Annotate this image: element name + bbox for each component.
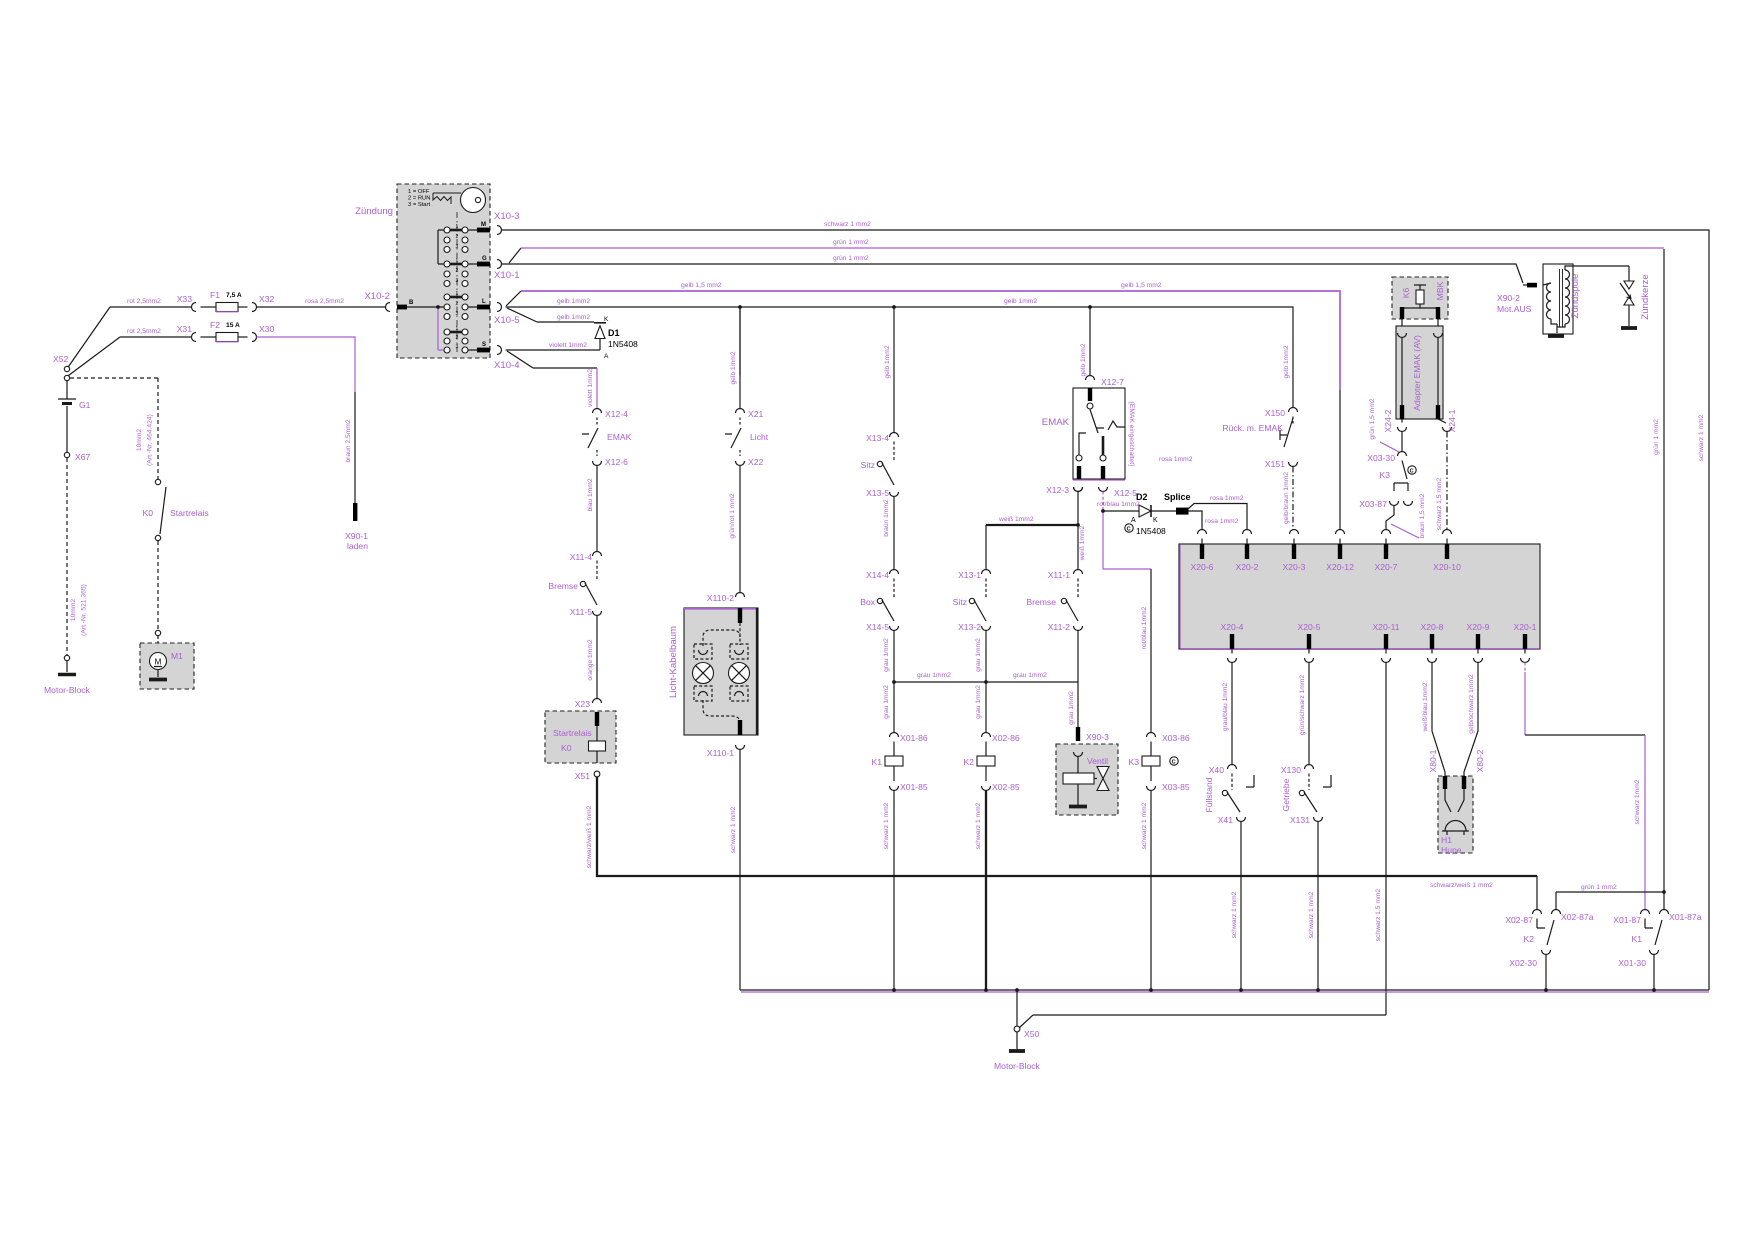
svg-text:grau 1mm2: grau 1mm2 <box>883 685 890 719</box>
svg-text:3 = Start: 3 = Start <box>408 202 430 208</box>
svg-text:X02-87a: X02-87a <box>1561 912 1594 922</box>
svg-text:3: 3 <box>456 244 459 250</box>
svg-text:schwarz 1 mm2: schwarz 1 mm2 <box>883 802 890 849</box>
svg-text:grau 1mm2: grau 1mm2 <box>883 638 890 672</box>
svg-text:X20-12: X20-12 <box>1326 562 1354 572</box>
svg-text:L: L <box>482 299 486 305</box>
svg-text:X67: X67 <box>75 452 91 462</box>
svg-text:10mm2: 10mm2 <box>70 599 77 622</box>
svg-text:braun 1mm2: braun 1mm2 <box>883 499 890 537</box>
svg-text:gelb 1mm2: gelb 1mm2 <box>730 351 737 384</box>
svg-text:X12-3: X12-3 <box>1046 485 1069 495</box>
svg-text:X90-3: X90-3 <box>1086 732 1109 742</box>
svg-text:1N5408: 1N5408 <box>1136 526 1166 536</box>
svg-text:schwarz/weiß 1 mm2: schwarz/weiß 1 mm2 <box>1430 882 1493 889</box>
svg-text:G: G <box>482 256 487 262</box>
svg-text:Bremse: Bremse <box>548 581 578 591</box>
svg-text:C: C <box>1172 760 1176 766</box>
svg-text:X12-7: X12-7 <box>1101 377 1124 387</box>
svg-text:schwarz 1 mm2: schwarz 1 mm2 <box>975 802 982 849</box>
svg-text:schwarz/weiß 1 mm2: schwarz/weiß 1 mm2 <box>586 805 593 868</box>
svg-text:rot 2,5mm2: rot 2,5mm2 <box>127 298 161 305</box>
svg-text:C: C <box>1127 527 1131 533</box>
svg-text:schwarz 1mm2: schwarz 1mm2 <box>1634 779 1641 824</box>
svg-text:M: M <box>481 222 486 228</box>
svg-text:gelb 1mm2: gelb 1mm2 <box>1080 343 1087 376</box>
svg-text:A: A <box>1131 517 1136 524</box>
svg-text:Zündspule: Zündspule <box>1570 274 1581 319</box>
svg-text:braun 2,5mm2: braun 2,5mm2 <box>345 419 352 462</box>
svg-text:X12-6: X12-6 <box>605 457 628 467</box>
svg-text:X11-2: X11-2 <box>1048 622 1071 632</box>
svg-text:X20-1: X20-1 <box>1514 622 1537 632</box>
svg-text:rot 2,5mm2: rot 2,5mm2 <box>127 328 161 335</box>
svg-text:X40: X40 <box>1209 765 1225 775</box>
svg-text:K0: K0 <box>561 743 572 753</box>
svg-text:[EMAK eingeschaltet]: [EMAK eingeschaltet] <box>1128 402 1135 466</box>
svg-text:A: A <box>604 353 609 360</box>
svg-text:X01-86: X01-86 <box>900 733 928 743</box>
svg-text:15 A: 15 A <box>226 322 240 329</box>
svg-text:F1: F1 <box>210 290 220 300</box>
svg-text:X80-2: X80-2 <box>1475 749 1485 772</box>
svg-text:X12-4: X12-4 <box>605 409 628 419</box>
svg-text:X90-2: X90-2 <box>1497 293 1520 303</box>
svg-text:(Art.-Nr. 521.365): (Art.-Nr. 521.365) <box>81 584 88 636</box>
svg-text:grün 1 mm2: grün 1 mm2 <box>833 239 869 246</box>
svg-text:X11-1: X11-1 <box>1048 570 1071 580</box>
svg-text:Splice: Splice <box>1164 492 1191 502</box>
svg-text:X02-85: X02-85 <box>992 782 1020 792</box>
svg-text:weiß 1mm2: weiß 1mm2 <box>1079 525 1086 561</box>
svg-text:K3: K3 <box>1128 757 1139 767</box>
svg-text:X10-4: X10-4 <box>494 360 520 371</box>
svg-text:gelb 1mm2: gelb 1mm2 <box>1004 298 1037 305</box>
svg-text:B: B <box>409 300 414 306</box>
svg-text:2: 2 <box>456 335 459 341</box>
svg-text:rosa 2,5mm2: rosa 2,5mm2 <box>305 298 344 305</box>
svg-text:X20-3: X20-3 <box>1283 562 1306 572</box>
svg-text:S: S <box>482 342 486 348</box>
svg-text:X20-10: X20-10 <box>1433 562 1461 572</box>
svg-text:X21: X21 <box>748 409 764 419</box>
svg-text:X131: X131 <box>1290 815 1310 825</box>
svg-text:Hupe: Hupe <box>1441 845 1462 855</box>
svg-text:3: 3 <box>456 344 459 350</box>
svg-text:X20-9: X20-9 <box>1467 622 1490 632</box>
svg-text:X24-2: X24-2 <box>1383 409 1393 432</box>
svg-text:X52: X52 <box>53 354 69 364</box>
svg-text:Getriebe: Getriebe <box>1281 778 1291 811</box>
svg-text:X24-1: X24-1 <box>1447 409 1457 432</box>
svg-text:M: M <box>155 658 162 667</box>
svg-text:F2: F2 <box>210 320 220 330</box>
svg-text:X30: X30 <box>259 324 275 334</box>
svg-text:X33: X33 <box>177 294 193 304</box>
svg-text:schwarz 1,5 mm2: schwarz 1,5 mm2 <box>1436 478 1443 531</box>
svg-text:schwarz 1,5 mm2: schwarz 1,5 mm2 <box>1375 889 1382 942</box>
svg-text:violett 1mm2: violett 1mm2 <box>587 369 594 407</box>
svg-text:X20-7: X20-7 <box>1375 562 1398 572</box>
svg-text:schwarz 1 mm2: schwarz 1 mm2 <box>730 806 737 853</box>
svg-text:Bremse: Bremse <box>1026 597 1056 607</box>
svg-text:X20-6: X20-6 <box>1191 562 1214 572</box>
svg-text:K1: K1 <box>1631 934 1642 944</box>
svg-text:EMAK: EMAK <box>1042 417 1070 428</box>
svg-text:laden: laden <box>347 541 368 551</box>
svg-text:2: 2 <box>456 268 459 274</box>
svg-text:gelb/braun 1mm2: gelb/braun 1mm2 <box>1283 472 1290 524</box>
svg-text:grau 1mm2: grau 1mm2 <box>975 685 982 719</box>
svg-text:X20-2: X20-2 <box>1236 562 1259 572</box>
svg-text:1: 1 <box>456 258 459 264</box>
svg-text:X03-85: X03-85 <box>1162 782 1190 792</box>
svg-text:X80-1: X80-1 <box>1428 749 1438 772</box>
svg-text:Füllstand: Füllstand <box>1204 777 1214 812</box>
svg-text:schwarz 1 mm2: schwarz 1 mm2 <box>1698 414 1705 461</box>
svg-text:grün 1 mm2: grün 1 mm2 <box>1653 419 1660 455</box>
svg-text:10mm2: 10mm2 <box>136 429 143 452</box>
svg-text:X110-1: X110-1 <box>707 748 734 758</box>
svg-text:X03-30: X03-30 <box>1367 453 1395 463</box>
svg-text:gelb 1,5 mm2: gelb 1,5 mm2 <box>681 282 722 289</box>
svg-text:MBK: MBK <box>1435 281 1445 300</box>
svg-text:X20-4: X20-4 <box>1221 622 1244 632</box>
svg-text:X20-5: X20-5 <box>1298 622 1321 632</box>
svg-text:Motor-Block: Motor-Block <box>994 1061 1041 1071</box>
svg-text:grün 1,5 mm2: grün 1,5 mm2 <box>1369 398 1376 440</box>
svg-text:X31: X31 <box>177 324 193 334</box>
svg-text:grün/rot 1 mm2: grün/rot 1 mm2 <box>729 493 736 539</box>
svg-text:weiß 1mm2: weiß 1mm2 <box>998 516 1034 523</box>
svg-text:X14-5: X14-5 <box>866 622 889 632</box>
svg-text:grau 1mm2: grau 1mm2 <box>917 672 951 679</box>
svg-text:X51: X51 <box>575 771 591 781</box>
svg-text:D1: D1 <box>608 328 620 338</box>
svg-text:gelb 1mm2: gelb 1mm2 <box>1283 345 1290 378</box>
svg-text:braun 1,5 mm2: braun 1,5 mm2 <box>1419 493 1426 538</box>
svg-text:X11-5: X11-5 <box>570 607 593 617</box>
svg-text:X12-5: X12-5 <box>1114 488 1137 498</box>
svg-text:EMAK: EMAK <box>607 432 632 442</box>
svg-text:X13-4: X13-4 <box>866 433 889 443</box>
svg-text:gelb 1mm2: gelb 1mm2 <box>557 314 590 321</box>
svg-text:X14-4: X14-4 <box>866 570 889 580</box>
svg-text:Ventil: Ventil <box>1087 756 1108 766</box>
svg-text:Licht-Kabelbaum: Licht-Kabelbaum <box>668 626 679 698</box>
svg-text:schwarz 1 mm2: schwarz 1 mm2 <box>1141 802 1148 849</box>
svg-text:Box: Box <box>860 597 876 607</box>
svg-text:weiß/blau 1mm2: weiß/blau 1mm2 <box>1422 682 1429 732</box>
svg-text:grün 1 mm2: grün 1 mm2 <box>833 255 869 262</box>
svg-text:X13-1: X13-1 <box>958 570 981 580</box>
svg-text:3: 3 <box>456 311 459 317</box>
svg-text:rot/blau 1mm2: rot/blau 1mm2 <box>1141 606 1148 649</box>
svg-text:1: 1 <box>456 291 459 297</box>
svg-text:X03-87: X03-87 <box>1359 499 1387 509</box>
svg-text:X41: X41 <box>1218 815 1234 825</box>
svg-text:X13-2: X13-2 <box>958 622 981 632</box>
svg-text:G1: G1 <box>79 400 91 410</box>
svg-text:1N5408: 1N5408 <box>608 339 638 349</box>
svg-text:3: 3 <box>456 278 459 284</box>
svg-text:2 = RUN: 2 = RUN <box>408 196 430 202</box>
svg-text:K3: K3 <box>1379 470 1390 480</box>
svg-text:X03-86: X03-86 <box>1162 733 1190 743</box>
svg-text:schwarz 1 mm2: schwarz 1 mm2 <box>1231 891 1238 938</box>
svg-text:K: K <box>604 316 609 323</box>
svg-text:rosa 1mm2: rosa 1mm2 <box>1210 495 1244 502</box>
svg-text:X50: X50 <box>1024 1029 1040 1039</box>
svg-text:gelb 1mm2: gelb 1mm2 <box>557 298 590 305</box>
svg-text:X90-1: X90-1 <box>345 531 368 541</box>
svg-text:K1: K1 <box>871 757 882 767</box>
svg-text:Zündung: Zündung <box>355 206 393 217</box>
svg-text:Rück. m. EMAK: Rück. m. EMAK <box>1222 423 1283 433</box>
svg-text:Adapter EMAK (AV): Adapter EMAK (AV) <box>1412 335 1422 411</box>
svg-text:X10-1: X10-1 <box>494 270 520 281</box>
svg-text:grau 1mm2: grau 1mm2 <box>975 638 982 672</box>
svg-text:orange 1mm2: orange 1mm2 <box>587 639 594 681</box>
svg-text:C: C <box>1410 469 1414 475</box>
svg-text:X150: X150 <box>1265 408 1285 418</box>
svg-text:X23: X23 <box>575 699 591 709</box>
svg-text:grau 1mm2: grau 1mm2 <box>1068 691 1075 725</box>
svg-text:Startrelais: Startrelais <box>170 508 209 518</box>
svg-text:X10-3: X10-3 <box>494 211 520 222</box>
svg-text:Licht: Licht <box>750 432 769 442</box>
svg-text:X01-30: X01-30 <box>1618 958 1646 968</box>
svg-text:schwarz 1 mm2: schwarz 1 mm2 <box>1308 891 1315 938</box>
svg-text:gelb/schwarz 1mm2: gelb/schwarz 1mm2 <box>1468 674 1475 734</box>
svg-text:K2: K2 <box>963 757 974 767</box>
svg-text:X01-87a: X01-87a <box>1669 912 1702 922</box>
svg-text:M1: M1 <box>171 651 183 661</box>
svg-text:(Art.-Nr. 464.424): (Art.-Nr. 464.424) <box>147 414 154 466</box>
svg-text:violett 1mm2: violett 1mm2 <box>549 342 587 349</box>
svg-text:X110-2: X110-2 <box>707 593 734 603</box>
svg-text:1: 1 <box>456 224 459 230</box>
svg-text:K0: K0 <box>142 508 153 518</box>
svg-text:grau/blau 1mm2: grau/blau 1mm2 <box>1222 683 1229 732</box>
svg-text:grün/schwarz 1mm2: grün/schwarz 1mm2 <box>1299 675 1306 735</box>
svg-text:K6: K6 <box>1401 288 1411 299</box>
svg-text:X32: X32 <box>259 294 275 304</box>
svg-text:rosa 1mm2: rosa 1mm2 <box>1159 456 1193 463</box>
svg-text:X02-87: X02-87 <box>1505 915 1533 925</box>
svg-text:rosa 1mm2: rosa 1mm2 <box>1205 518 1239 525</box>
svg-text:Startrelais: Startrelais <box>553 728 592 738</box>
svg-text:X13-5: X13-5 <box>866 488 889 498</box>
svg-text:K2: K2 <box>1523 934 1534 944</box>
svg-text:X02-86: X02-86 <box>992 733 1020 743</box>
svg-text:Sitz: Sitz <box>953 597 967 607</box>
svg-text:gelb 1mm2: gelb 1mm2 <box>884 345 891 378</box>
svg-text:Motor-Block: Motor-Block <box>44 685 91 695</box>
svg-text:X10-2: X10-2 <box>364 291 390 302</box>
svg-text:X01-85: X01-85 <box>900 782 928 792</box>
svg-text:grün 1 mm2: grün 1 mm2 <box>1581 884 1617 891</box>
svg-text:X10-5: X10-5 <box>494 315 520 326</box>
svg-text:grau 1mm2: grau 1mm2 <box>1013 672 1047 679</box>
svg-text:Zündkerze: Zündkerze <box>1640 274 1651 319</box>
svg-text:gelb 1,5 mm2: gelb 1,5 mm2 <box>1121 282 1162 289</box>
svg-text:H1: H1 <box>1441 835 1452 845</box>
svg-text:Mot.AUS: Mot.AUS <box>1497 304 1532 314</box>
svg-text:X20-8: X20-8 <box>1421 622 1444 632</box>
svg-text:X20-11: X20-11 <box>1372 622 1399 632</box>
svg-text:blau 1mm2: blau 1mm2 <box>587 478 594 511</box>
svg-text:1: 1 <box>456 326 459 332</box>
svg-text:X01-87: X01-87 <box>1613 915 1641 925</box>
svg-text:X130: X130 <box>1281 765 1301 775</box>
svg-text:2: 2 <box>456 234 459 240</box>
svg-text:7,5 A: 7,5 A <box>226 292 242 299</box>
svg-text:2: 2 <box>456 301 459 307</box>
svg-text:Sitz: Sitz <box>861 460 875 470</box>
svg-text:X11-4: X11-4 <box>570 552 593 562</box>
svg-text:rot/blau 1mm2: rot/blau 1mm2 <box>1097 501 1140 508</box>
svg-text:X151: X151 <box>1265 459 1285 469</box>
svg-text:X22: X22 <box>748 457 764 467</box>
svg-text:K: K <box>1153 517 1158 524</box>
svg-text:X02-30: X02-30 <box>1509 958 1537 968</box>
svg-text:1 = OFF: 1 = OFF <box>408 189 430 195</box>
svg-text:schwarz 1 mm2: schwarz 1 mm2 <box>824 221 871 228</box>
